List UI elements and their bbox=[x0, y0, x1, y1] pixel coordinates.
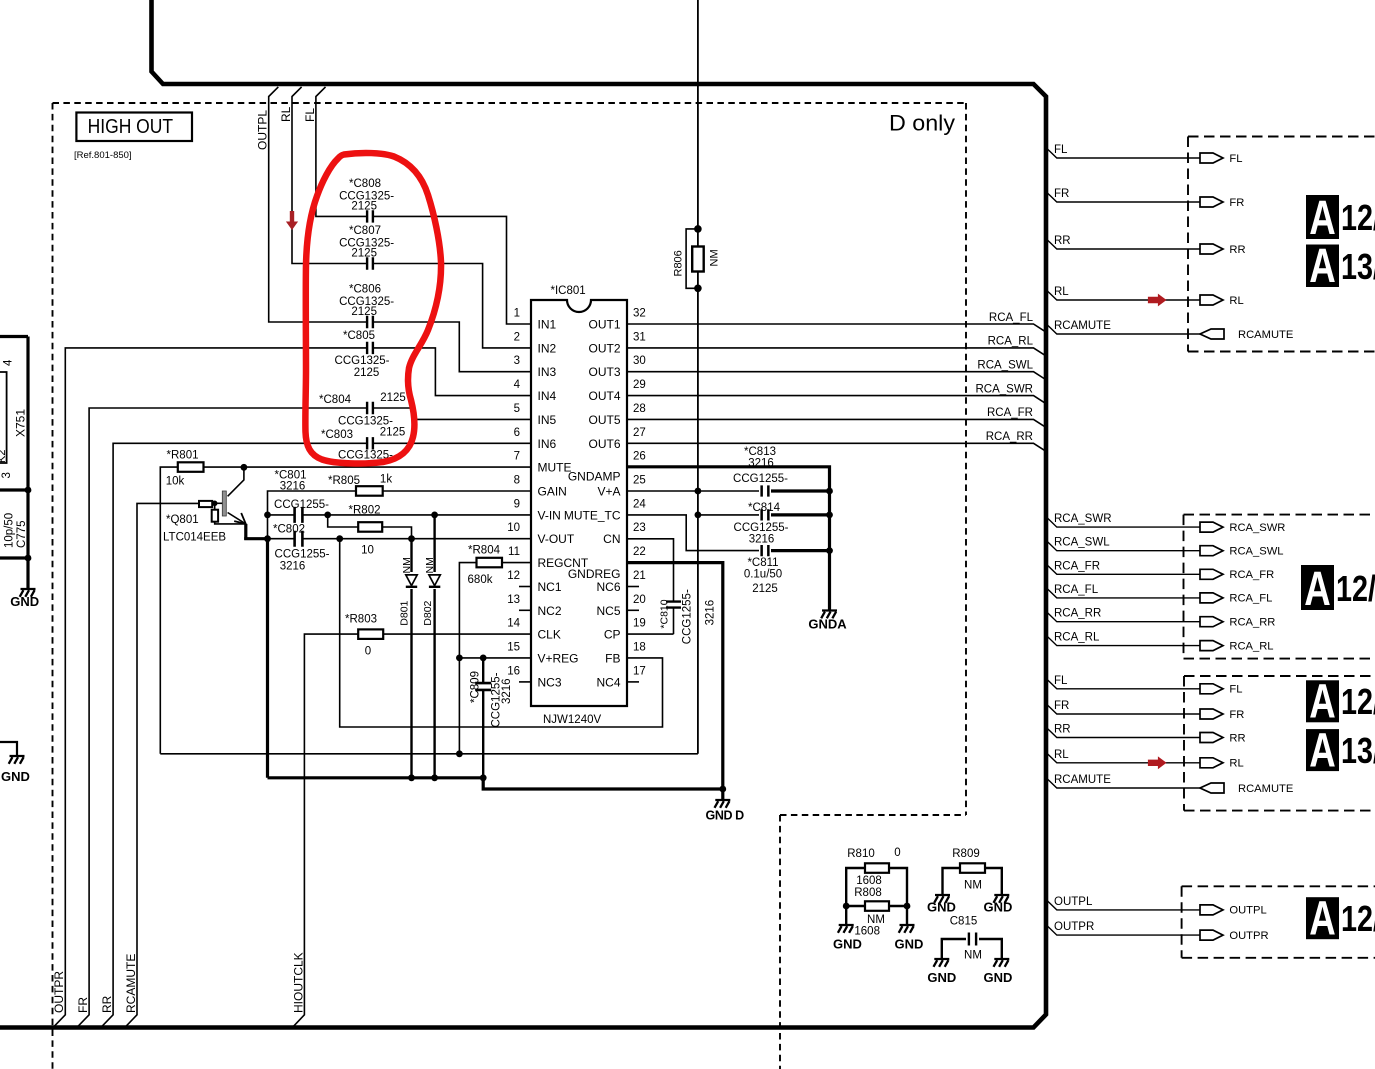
capacitor C803 bbox=[368, 436, 372, 450]
connector arrow RL bbox=[1200, 295, 1223, 305]
wire C813 to GNDA rail (thick) bbox=[771, 489, 830, 492]
connector arrow RR bbox=[1200, 244, 1223, 254]
svg-text:R808: R808 bbox=[854, 887, 882, 899]
resistor R809 (NM) bbox=[943, 868, 1002, 895]
wire net FR (to C804) bbox=[78, 408, 531, 1026]
svg-text:32: 32 bbox=[633, 308, 646, 320]
wire net RCA_RR (panel) bbox=[1046, 611, 1200, 622]
svg-text:GND: GND bbox=[10, 594, 39, 609]
sheet ref tag A 12/1 bbox=[1301, 565, 1334, 610]
ground GND (left lower) bbox=[0, 742, 17, 756]
svg-text:RR: RR bbox=[1229, 244, 1245, 256]
capacitor C802 bbox=[295, 530, 301, 548]
connector arrow RL bbox=[1200, 758, 1223, 768]
svg-text:RL: RL bbox=[1054, 286, 1069, 298]
svg-text:IN2: IN2 bbox=[538, 341, 557, 355]
svg-text:CCG1255-: CCG1255- bbox=[682, 589, 694, 644]
red down arrow annotation bbox=[286, 211, 298, 230]
capacitor C811 bbox=[762, 544, 767, 557]
resistor R804 bbox=[502, 562, 531, 564]
junctions wire B bbox=[408, 774, 415, 781]
svg-text:RCA_RR: RCA_RR bbox=[1054, 608, 1101, 620]
svg-text:RCA_FR: RCA_FR bbox=[1229, 569, 1274, 581]
wire V+A row pin25 bbox=[627, 490, 759, 492]
svg-text:2125: 2125 bbox=[351, 306, 377, 318]
junction X751 pin3 bbox=[25, 487, 32, 494]
svg-text:*C806: *C806 bbox=[349, 284, 381, 296]
svg-text:OUT3: OUT3 bbox=[588, 365, 620, 379]
connector arrow FL bbox=[1200, 684, 1223, 694]
svg-text:12/1: 12/1 bbox=[1341, 197, 1375, 238]
svg-text:26: 26 bbox=[633, 451, 646, 463]
svg-text:MUTE_TC: MUTE_TC bbox=[564, 508, 621, 522]
svg-text:IN4: IN4 bbox=[538, 389, 557, 403]
svg-text:OUTPR: OUTPR bbox=[1229, 930, 1268, 942]
wire MUTE row pin7 bbox=[204, 466, 532, 468]
svg-text:CCG1325-: CCG1325- bbox=[335, 355, 390, 367]
svg-text:NJW1240V: NJW1240V bbox=[543, 714, 601, 726]
resistor R802 bbox=[328, 515, 359, 527]
svg-text:RL: RL bbox=[1054, 749, 1069, 761]
svg-text:*IC801: *IC801 bbox=[551, 285, 586, 297]
svg-text:RR: RR bbox=[1054, 235, 1071, 247]
wire net RL (panel) bbox=[1046, 289, 1200, 300]
svg-text:*C810: *C810 bbox=[659, 599, 671, 628]
sheet ref tag A 12/1 bbox=[1306, 680, 1339, 722]
svg-text:CCG1255-: CCG1255- bbox=[734, 522, 789, 534]
svg-text:NM: NM bbox=[424, 557, 436, 573]
resistor R810 bbox=[846, 868, 907, 925]
connector arrow RCA_SWR bbox=[1200, 522, 1223, 532]
connector arrow RCA_RR bbox=[1200, 617, 1223, 627]
wire net RCA_FL (panel) bbox=[1046, 587, 1200, 598]
wire net OUTPR (to C805) bbox=[54, 348, 531, 1026]
svg-text:FL: FL bbox=[303, 108, 317, 122]
svg-text:RCA_RL: RCA_RL bbox=[988, 336, 1034, 348]
svg-text:V-OUT: V-OUT bbox=[538, 532, 575, 546]
svg-text:NC6: NC6 bbox=[596, 580, 620, 594]
svg-text:*R805: *R805 bbox=[328, 475, 360, 487]
svg-text:3216: 3216 bbox=[749, 534, 775, 546]
svg-text:7: 7 bbox=[514, 451, 520, 463]
svg-text:GNDA: GNDA bbox=[808, 617, 847, 632]
svg-text:680k: 680k bbox=[468, 574, 493, 586]
svg-text:RCAMUTE: RCAMUTE bbox=[1238, 783, 1293, 795]
svg-text:0.1u/50: 0.1u/50 bbox=[744, 569, 782, 581]
svg-text:OUT5: OUT5 bbox=[588, 413, 620, 427]
svg-text:*R803: *R803 bbox=[345, 614, 377, 626]
svg-text:NC3: NC3 bbox=[538, 675, 562, 689]
svg-text:*R802: *R802 bbox=[349, 505, 381, 517]
svg-text:RCA_SWR: RCA_SWR bbox=[1054, 513, 1112, 525]
svg-text:12/1: 12/1 bbox=[1341, 681, 1375, 722]
wire net RCA_SWL (panel) bbox=[1046, 540, 1200, 551]
svg-text:GND: GND bbox=[927, 900, 956, 915]
svg-text:*Q801: *Q801 bbox=[166, 514, 199, 526]
capacitor C808 bbox=[368, 209, 372, 223]
connector arrow RCA_SWL bbox=[1200, 546, 1223, 556]
svg-text:GND D: GND D bbox=[706, 809, 745, 823]
svg-text:GND: GND bbox=[895, 937, 924, 952]
sheet ref tag A 12/1 bbox=[1306, 195, 1339, 239]
svg-text:27: 27 bbox=[633, 427, 646, 439]
capacitor C807 bbox=[368, 256, 372, 270]
ground GND (R810/R808 left) bbox=[838, 925, 854, 933]
wire GNDAMP pin26 (thick) bbox=[627, 467, 830, 611]
svg-text:GND: GND bbox=[1, 769, 30, 784]
svg-text:RCA_RR: RCA_RR bbox=[986, 431, 1033, 443]
svg-text:RCA_SWL: RCA_SWL bbox=[1054, 537, 1110, 549]
dashed connector group box bbox=[1182, 886, 1375, 958]
svg-text:11: 11 bbox=[508, 546, 520, 558]
svg-text:12/1: 12/1 bbox=[1336, 568, 1375, 609]
ground GND D bbox=[721, 789, 724, 800]
svg-text:CCG1255-: CCG1255- bbox=[275, 549, 330, 561]
svg-text:19: 19 bbox=[633, 618, 646, 630]
svg-text:*C808: *C808 bbox=[349, 178, 381, 190]
svg-text:A: A bbox=[1309, 191, 1336, 245]
svg-text:IN5: IN5 bbox=[538, 413, 557, 427]
wire net RCA_RL (OUT2 to bus) bbox=[627, 348, 1046, 356]
svg-text:RCA_RL: RCA_RL bbox=[1229, 640, 1273, 652]
sheet ref tag A 13/1 bbox=[1306, 245, 1339, 288]
svg-text:16: 16 bbox=[507, 665, 520, 677]
wire net RCA_SWR (panel) bbox=[1046, 516, 1200, 527]
svg-text:8: 8 bbox=[514, 475, 520, 487]
dashed connector group box bbox=[1184, 515, 1375, 659]
wire net RCAMUTE (panel) bbox=[1046, 777, 1200, 788]
sheet ref tag A 12/1 bbox=[1306, 897, 1339, 939]
wire V+A riser from top with R806 bbox=[697, 0, 699, 754]
ground GND (R809 right) bbox=[994, 895, 1010, 903]
wire FB loop pin18 to V-OUT bbox=[340, 539, 663, 727]
wire net RL (panel) bbox=[1046, 752, 1200, 763]
svg-text:13: 13 bbox=[507, 594, 520, 606]
svg-text:12/1: 12/1 bbox=[1341, 898, 1375, 939]
svg-text:GND: GND bbox=[983, 900, 1012, 915]
svg-text:RCAMUTE: RCAMUTE bbox=[1054, 774, 1111, 786]
diode D801 bbox=[410, 539, 412, 778]
connector arrow RCA_FR bbox=[1200, 569, 1223, 579]
svg-text:OUT6: OUT6 bbox=[588, 437, 620, 451]
wire net RCA_FL (OUT1 to bus) bbox=[627, 324, 1046, 332]
wire net RCA_RL (panel) bbox=[1046, 635, 1200, 646]
svg-text:25: 25 bbox=[633, 475, 646, 487]
connector arrow FR bbox=[1200, 709, 1223, 719]
svg-text:2125: 2125 bbox=[380, 427, 406, 439]
svg-text:NC1: NC1 bbox=[538, 580, 562, 594]
wire C814 row bbox=[698, 514, 759, 516]
svg-text:RCA_SWR: RCA_SWR bbox=[1229, 522, 1285, 534]
resistor Q801 base-emitter bbox=[212, 510, 218, 522]
svg-text:FR: FR bbox=[1054, 188, 1069, 200]
wire net RL (top entry) bbox=[292, 87, 531, 348]
svg-text:*C814: *C814 bbox=[748, 502, 781, 514]
svg-text:*C803: *C803 bbox=[321, 429, 353, 441]
svg-text:FL: FL bbox=[1054, 144, 1068, 156]
junction R804/V+REG rail bbox=[456, 750, 463, 757]
svg-text:24: 24 bbox=[633, 498, 646, 510]
capacitor C815 (NM) bbox=[942, 939, 1002, 959]
svg-text:OUTPR: OUTPR bbox=[52, 971, 66, 1013]
capacitor C813 bbox=[762, 484, 767, 497]
sheet ref tag A 13/1 bbox=[1306, 729, 1339, 771]
wire net OUTPR (panel) bbox=[1046, 924, 1200, 935]
svg-text:NM: NM bbox=[964, 880, 982, 892]
svg-text:NC5: NC5 bbox=[596, 604, 620, 618]
svg-text:GAIN: GAIN bbox=[538, 485, 567, 499]
svg-text:[Ref.801-850]: [Ref.801-850] bbox=[74, 150, 132, 161]
svg-text:HIGH OUT: HIGH OUT bbox=[88, 115, 174, 138]
svg-text:R810: R810 bbox=[847, 848, 875, 860]
svg-text:10: 10 bbox=[361, 545, 374, 557]
svg-text:LTC014EEB: LTC014EEB bbox=[163, 532, 226, 544]
connector arrow OUTPR bbox=[1200, 930, 1223, 940]
svg-text:IN3: IN3 bbox=[538, 365, 557, 379]
svg-text:21: 21 bbox=[633, 570, 646, 582]
svg-text:13/1: 13/1 bbox=[1341, 246, 1375, 287]
svg-text:3216: 3216 bbox=[748, 458, 774, 470]
svg-text:31: 31 bbox=[633, 331, 646, 343]
svg-text:NM: NM bbox=[964, 950, 982, 962]
svg-text:3216: 3216 bbox=[501, 678, 513, 704]
svg-text:RR: RR bbox=[1229, 732, 1245, 744]
svg-text:FL: FL bbox=[1229, 153, 1242, 165]
diode D802 bbox=[433, 515, 435, 778]
junction C775 bbox=[25, 555, 32, 562]
wire CN pin23 to C810 bbox=[627, 539, 674, 634]
resistor R803 bbox=[358, 629, 383, 639]
svg-text:GNDAMP: GNDAMP bbox=[568, 470, 621, 484]
svg-text:A: A bbox=[1309, 675, 1336, 729]
svg-text:RCA_FL: RCA_FL bbox=[1054, 584, 1099, 596]
junction Q801 base node bbox=[212, 501, 218, 507]
svg-text:4: 4 bbox=[514, 379, 521, 391]
svg-text:*R801: *R801 bbox=[167, 450, 199, 462]
svg-text:V+REG: V+REG bbox=[538, 652, 579, 666]
wire C814 to GNDA rail (thick) bbox=[771, 513, 830, 516]
transistor Q2 collector junction bbox=[241, 464, 248, 471]
junctions V+REG row bbox=[456, 655, 463, 662]
svg-text:A: A bbox=[1309, 891, 1336, 945]
wire CP pin19 bbox=[627, 633, 674, 635]
svg-text:IN1: IN1 bbox=[538, 318, 557, 332]
wire X751 pin3 bbox=[0, 488, 28, 491]
wire net HIOUTCLK (to R803) bbox=[294, 634, 359, 1026]
svg-text:A: A bbox=[1309, 239, 1336, 293]
wire MUTE_TC pin24 to C811 bbox=[627, 515, 759, 551]
ground GND (R810/R808 right) bbox=[899, 925, 915, 933]
wire V-IN row pin9 bbox=[268, 514, 532, 516]
svg-text:GND: GND bbox=[927, 970, 956, 985]
svg-text:GND: GND bbox=[833, 937, 862, 952]
svg-text:2125: 2125 bbox=[752, 583, 778, 595]
wire net RCA_SWR (OUT4 to bus) bbox=[627, 396, 1046, 404]
svg-text:10: 10 bbox=[507, 522, 520, 534]
svg-text:NM: NM bbox=[401, 557, 413, 573]
svg-text:C775: C775 bbox=[16, 521, 28, 549]
svg-text:CLK: CLK bbox=[538, 628, 561, 642]
svg-text:13/1: 13/1 bbox=[1341, 730, 1375, 771]
wire ground return (wire B) bbox=[268, 778, 723, 789]
wire C811 to GNDA rail (thick) bbox=[771, 549, 830, 552]
resistor R801 bbox=[178, 462, 204, 472]
wire net RCA_SWL (OUT3 to bus) bbox=[627, 372, 1046, 380]
ground GND (C815 left) bbox=[934, 959, 950, 967]
svg-text:3216: 3216 bbox=[280, 561, 306, 573]
resistor R806 (NM) bypass bbox=[686, 229, 698, 288]
svg-text:*C802: *C802 bbox=[273, 524, 305, 536]
svg-text:R806: R806 bbox=[673, 250, 685, 276]
capacitor C804 bbox=[368, 401, 372, 415]
svg-text:GND: GND bbox=[983, 970, 1012, 985]
svg-text:CN: CN bbox=[603, 532, 620, 546]
wire mute-GND riser (thick) bbox=[266, 539, 269, 778]
Q801 emitter with arrow bbox=[228, 513, 246, 524]
svg-text:CCG1255-: CCG1255- bbox=[733, 473, 788, 485]
wire V-OUT row pin10 bbox=[268, 538, 532, 540]
svg-text:23: 23 bbox=[633, 522, 646, 534]
red arrow (annotation) bbox=[1148, 294, 1167, 307]
svg-text:OUT1: OUT1 bbox=[588, 318, 620, 332]
connector arrow FL bbox=[1200, 153, 1223, 163]
wire net OUTPL (top entry) bbox=[269, 87, 531, 372]
connector arrow OUTPL bbox=[1200, 905, 1223, 915]
capacitor C814 bbox=[762, 508, 767, 521]
svg-text:3: 3 bbox=[1, 472, 13, 478]
svg-text:12: 12 bbox=[507, 570, 520, 582]
svg-text:17: 17 bbox=[633, 665, 646, 677]
svg-text:OUTPL: OUTPL bbox=[256, 110, 270, 150]
svg-text:NM: NM bbox=[709, 249, 721, 266]
svg-text:*C813: *C813 bbox=[744, 446, 776, 458]
svg-text:9: 9 bbox=[514, 498, 520, 510]
wire net FR (panel) bbox=[1046, 191, 1200, 202]
junction GND D node bbox=[719, 786, 726, 793]
wire net FL (panel) bbox=[1046, 678, 1200, 689]
wire net RCA_FR (panel) bbox=[1046, 564, 1200, 575]
svg-text:1k: 1k bbox=[380, 474, 392, 486]
resistor R808 (NM) bbox=[846, 905, 907, 907]
svg-text:RCA_SWR: RCA_SWR bbox=[975, 383, 1033, 395]
capacitor C809 riser bbox=[482, 658, 484, 778]
svg-text:RCA_FL: RCA_FL bbox=[1229, 593, 1272, 605]
op-amp IC U801 NJW1240V body bbox=[531, 300, 627, 706]
svg-text:FL: FL bbox=[1054, 675, 1068, 687]
junctions V+A riser bbox=[695, 488, 702, 495]
svg-text:C815: C815 bbox=[950, 916, 978, 928]
ground GND (C815 right) bbox=[994, 959, 1010, 967]
junctions GNDA rail bbox=[826, 488, 833, 495]
svg-text:10k: 10k bbox=[166, 476, 185, 488]
svg-text:HIOUTCLK: HIOUTCLK bbox=[291, 952, 305, 1013]
wire capacitor C775 right plate bbox=[0, 556, 28, 559]
svg-text:2: 2 bbox=[514, 331, 520, 343]
wire net RCA_RR (OUT6 to bus) bbox=[627, 443, 1046, 451]
svg-text:RCA_FL: RCA_FL bbox=[989, 312, 1034, 324]
svg-text:30: 30 bbox=[633, 355, 646, 367]
wire net OUTPL (panel) bbox=[1046, 899, 1200, 910]
capacitor C801 bbox=[295, 506, 301, 524]
svg-text:OUTPR: OUTPR bbox=[1054, 921, 1094, 933]
svg-text:FB: FB bbox=[605, 652, 620, 666]
connector arrow RR bbox=[1200, 733, 1223, 743]
junctions V-OUT row bbox=[264, 535, 271, 542]
svg-text:RR: RR bbox=[1054, 724, 1071, 736]
transistor Q801 bbox=[228, 467, 244, 496]
resistor R805 bbox=[356, 486, 383, 496]
svg-text:*C805: *C805 bbox=[343, 330, 375, 342]
svg-text:OUTPL: OUTPL bbox=[1229, 905, 1266, 917]
svg-text:0: 0 bbox=[894, 847, 900, 859]
wire net RCAMUTE (panel) bbox=[1046, 323, 1200, 334]
capacitor C806 bbox=[368, 315, 372, 329]
svg-text:RCA_RR: RCA_RR bbox=[1229, 617, 1275, 629]
wire V+REG row pin15 bbox=[459, 657, 531, 659]
svg-text:*C807: *C807 bbox=[349, 225, 381, 237]
svg-text:D802: D802 bbox=[422, 600, 434, 625]
ground GND (R809 left) bbox=[934, 895, 950, 903]
svg-text:CP: CP bbox=[604, 628, 621, 642]
wire net FL (top entry) bbox=[316, 87, 531, 324]
svg-text:D only: D only bbox=[889, 111, 955, 136]
connector X751 body bbox=[0, 372, 7, 463]
connector arrow RCA_FL bbox=[1200, 593, 1223, 603]
svg-text:*C809: *C809 bbox=[470, 671, 482, 703]
svg-text:14: 14 bbox=[507, 618, 520, 630]
svg-text:RCA_SWL: RCA_SWL bbox=[977, 360, 1033, 372]
wire net RR (panel) bbox=[1046, 238, 1200, 249]
svg-text:D801: D801 bbox=[399, 600, 411, 625]
svg-text:RCA_SWL: RCA_SWL bbox=[1229, 546, 1283, 558]
svg-text:FR: FR bbox=[76, 997, 90, 1013]
wire net RCAMUTE (to Q801 base) bbox=[126, 503, 199, 1026]
connector arrow FR bbox=[1200, 197, 1223, 207]
svg-text:FR: FR bbox=[1054, 700, 1069, 712]
svg-text:RCA_FR: RCA_FR bbox=[1054, 560, 1100, 572]
svg-text:IN6: IN6 bbox=[538, 437, 557, 451]
svg-text:X751: X751 bbox=[14, 409, 28, 437]
wire net RCA_FR (OUT5 to bus) bbox=[627, 419, 1046, 427]
svg-text:1: 1 bbox=[514, 308, 520, 320]
wire net FR (panel) bbox=[1046, 703, 1200, 714]
svg-text:FR: FR bbox=[1229, 197, 1244, 209]
connector arrow RCAMUTE bbox=[1200, 783, 1224, 793]
svg-text:RCAMUTE: RCAMUTE bbox=[1238, 329, 1293, 341]
svg-text:RL: RL bbox=[1229, 295, 1243, 307]
connector arrow RCA_RL bbox=[1200, 641, 1223, 651]
wire X751 vertical to GND bbox=[26, 337, 29, 590]
svg-text:2125: 2125 bbox=[351, 247, 377, 259]
svg-text:*C804: *C804 bbox=[319, 394, 352, 406]
svg-text:2125: 2125 bbox=[380, 392, 406, 404]
svg-text:NC2: NC2 bbox=[538, 604, 562, 618]
svg-text:RL: RL bbox=[279, 106, 293, 122]
svg-text:V+A: V+A bbox=[597, 485, 620, 499]
svg-text:A: A bbox=[1304, 562, 1331, 616]
capacitor C810 bbox=[665, 602, 682, 607]
dashed connector group box bbox=[1188, 137, 1375, 352]
svg-text:4: 4 bbox=[3, 359, 15, 366]
svg-text:RL: RL bbox=[1229, 758, 1243, 770]
board outline border (thick) bbox=[0, 0, 1046, 1028]
svg-text:RCAMUTE: RCAMUTE bbox=[1054, 320, 1111, 332]
svg-text:OUT4: OUT4 bbox=[588, 389, 620, 403]
svg-text:1608: 1608 bbox=[856, 875, 882, 887]
svg-text:2125: 2125 bbox=[351, 200, 377, 212]
svg-text:R809: R809 bbox=[952, 848, 980, 860]
svg-text:6: 6 bbox=[514, 427, 520, 439]
